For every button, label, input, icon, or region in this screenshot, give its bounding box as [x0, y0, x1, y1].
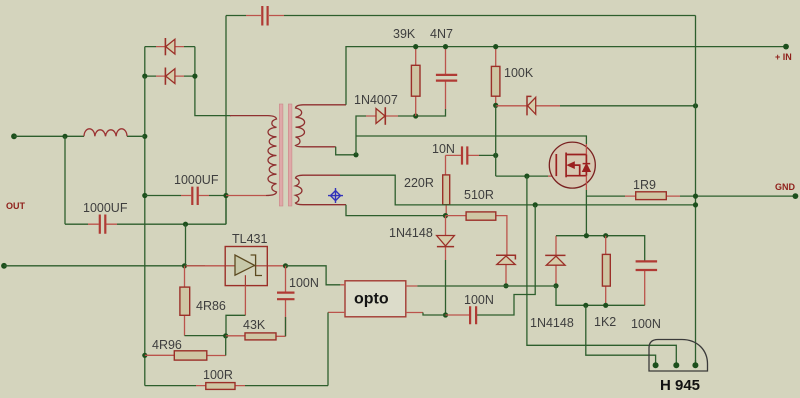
wire x144.8 main left vertical — [144, 76, 146, 386]
node dot (445.5,315) — [443, 312, 448, 317]
wire inductor row — [14, 135, 145, 137]
node dot (495.7,46.6) — [493, 44, 498, 49]
node dot (585.8,305.3) — [583, 303, 588, 308]
wire TL431 right to opto LED — [286, 266, 341, 285]
transformer core bars — [279, 104, 283, 206]
transformer TR1 secondary upper winding — [296, 105, 347, 147]
wire x65 down — [64, 136, 66, 224]
opto U2 — [328, 281, 423, 317]
node dot (605.7,305.3) — [603, 303, 608, 308]
node dot (144.8,195.5) — [142, 193, 147, 198]
terminal GND — [793, 193, 799, 199]
terminal +IN — [783, 44, 789, 50]
capacitor 4N7 — [436, 47, 457, 109]
node dot (695.5,204.9) — [693, 202, 698, 207]
wire 1000UF lower row — [65, 196, 226, 225]
wire TL431 ref staircase — [244, 286, 246, 316]
node dot (415.7,46.6) — [413, 44, 418, 49]
node dot (556,285.8) — [553, 283, 558, 288]
node dot (356,154.8) — [353, 152, 358, 157]
MOSFET Q1 — [549, 142, 595, 190]
diode 1N4007 — [366, 107, 398, 125]
inductor L1 — [84, 129, 127, 137]
wire 43K right up to 100N — [285, 317, 287, 336]
svg-text:100R: 100R — [203, 368, 233, 382]
wire x695 main right vertical — [695, 16, 697, 366]
transformer TR1 secondary lower winding — [296, 175, 347, 205]
wire 1R9 to GND — [680, 195, 795, 197]
wire gate row y176 — [496, 175, 548, 177]
node dot (495.7,155.4) — [493, 153, 498, 158]
wire sec-upper bottom to anode node — [336, 147, 356, 155]
node dot (445.5,46.6) — [443, 44, 448, 49]
node dot (526.9,176.1) — [524, 174, 529, 179]
wire x185.5 from 224 down — [185, 224, 187, 266]
wire left vertical of diode pair — [144, 47, 146, 77]
wire MOSFET drain row y136 — [356, 136, 586, 144]
resistor 100K — [491, 47, 500, 106]
diode D2 below D1 — [145, 68, 195, 85]
capacitor 100N mid — [446, 314, 470, 316]
svg-text:39K: 39K — [393, 27, 416, 41]
resistor 4R96 — [145, 351, 226, 360]
svg-text:+ IN: + IN — [775, 52, 792, 62]
svg-text:4R96: 4R96 — [152, 338, 182, 352]
wire snubber group top row y235.7 — [556, 236, 645, 261]
terminal OUT upper row — [11, 133, 17, 139]
svg-text:1000UF: 1000UF — [83, 201, 128, 215]
node dot (185.5,224.2) — [183, 222, 188, 227]
svg-text:220R: 220R — [404, 176, 434, 190]
wire zener to x695 — [560, 105, 696, 107]
node dot (285.5,265.8) — [283, 263, 288, 268]
svg-text:100N: 100N — [289, 276, 319, 290]
wire primary bottom pin — [226, 195, 266, 197]
resistor 39K — [411, 47, 420, 116]
wire top snubber rail — [226, 16, 696, 117]
node dot (695.5,196.1) — [693, 194, 698, 199]
wire snubber group bottom row y305.3 — [556, 286, 645, 306]
svg-text:1K2: 1K2 — [594, 315, 616, 329]
capacitor C 1000UF upper — [181, 195, 209, 197]
wire 10N row y155 — [479, 154, 496, 156]
diode zener D4 x506.9 — [496, 246, 515, 286]
wire sec-upper top to +IN rail — [346, 47, 786, 105]
svg-text:4R86: 4R86 — [196, 299, 226, 313]
transformer TR1 primary winding — [230, 116, 277, 196]
diode 1N4148 D6 x445.5 pointing down — [437, 216, 455, 260]
node dot (535.2,204.9) — [533, 202, 538, 207]
TL431 U1 — [186, 247, 286, 286]
wire sec-lower top pin to y205 rail — [340, 175, 696, 205]
wire right vertical of diode pair to primary top — [195, 47, 231, 116]
wire x495.7 vertical 105-176 — [495, 105, 497, 176]
wire anode vertical x356 — [356, 116, 366, 155]
node dot (184.5,265.8) — [182, 263, 187, 268]
node dot (586.4,235.7) — [584, 233, 589, 238]
node dot (506,285.8) — [503, 283, 508, 288]
wire TL431 net from OUT — [1, 263, 7, 269]
svg-text:1N4148: 1N4148 — [389, 226, 433, 240]
node dot (495.7,105.4) — [493, 103, 498, 108]
svg-text:TL431: TL431 — [232, 232, 267, 246]
capacitor 100N at TL431 — [285, 266, 287, 337]
svg-text:1000UF: 1000UF — [174, 173, 219, 187]
svg-text:100K: 100K — [504, 66, 534, 80]
node dot (144.8,136.3) — [142, 134, 147, 139]
node dot diode pair left — [142, 74, 147, 79]
node dot (226,195.5) primary bottom — [223, 193, 228, 198]
svg-text:1N4148: 1N4148 — [530, 316, 574, 330]
wire x226 down to primary bottom node — [225, 116, 227, 224]
resistor 220R — [443, 175, 450, 216]
capacitor C-snubber top — [246, 15, 284, 17]
origin marker blue — [328, 188, 343, 203]
svg-text:100N: 100N — [464, 293, 494, 307]
wire MOSFET source down — [585, 190, 587, 236]
svg-text:opto: opto — [354, 291, 389, 308]
svg-text:100N: 100N — [631, 317, 661, 331]
capacitor C 1000UF lower — [88, 223, 117, 225]
wire opto collector row y286 — [417, 285, 556, 287]
svg-text:GND: GND — [775, 182, 796, 192]
svg-text:1N4007: 1N4007 — [354, 93, 398, 107]
resistor 510R — [446, 212, 507, 246]
node dot (605.7,235.7) — [603, 233, 608, 238]
wire opto emitter staircase — [423, 205, 535, 315]
svg-text:10N: 10N — [432, 142, 455, 156]
capacitor 10N — [446, 154, 480, 156]
node dot diode pair right — [192, 74, 197, 79]
node dot (144.8,355.3) — [142, 353, 147, 358]
node dot (415.7,116) — [413, 113, 418, 118]
wire gate node down to H945 pin2 — [527, 176, 676, 362]
svg-text:1R9: 1R9 — [633, 178, 656, 192]
wire group to H945 pin1 — [586, 305, 656, 362]
node dot (225.7,335.8) — [223, 333, 228, 338]
diode 1N4148 D5 x556 — [545, 236, 565, 286]
wire 4R86 bottom to 43K node — [185, 335, 226, 337]
wire 4R96 right up to 43K node — [225, 336, 227, 356]
diode zener D3 row y105.8 — [496, 96, 560, 115]
wire 1N4007 cathode to 39K node — [398, 109, 446, 116]
svg-text:OUT: OUT — [6, 201, 26, 211]
svg-text:4N7: 4N7 — [430, 27, 453, 41]
wire opto cathode down — [327, 312, 329, 385]
resistor 1K2 — [602, 236, 610, 306]
wire sec-lower bottom pin — [346, 205, 446, 216]
wire 1000UF upper row — [145, 195, 226, 197]
capacitor 100N right — [636, 261, 658, 305]
resistor 43K — [226, 333, 286, 340]
diode D1 top-left — [145, 38, 195, 55]
connector H945 — [649, 340, 708, 372]
node dot (445.5,215.6) — [443, 213, 448, 218]
node dot (695.5,105.8) — [693, 103, 698, 108]
resistor 1R9 — [586, 192, 680, 200]
svg-text:510R: 510R — [464, 188, 494, 202]
svg-text:43K: 43K — [243, 318, 266, 332]
resistor 100R — [145, 383, 328, 390]
svg-text:H 945: H 945 — [660, 377, 700, 394]
node dot (65,136.3) — [62, 134, 67, 139]
resistor 4R86 — [180, 266, 190, 336]
wire D6 down to 100N row — [445, 260, 447, 315]
